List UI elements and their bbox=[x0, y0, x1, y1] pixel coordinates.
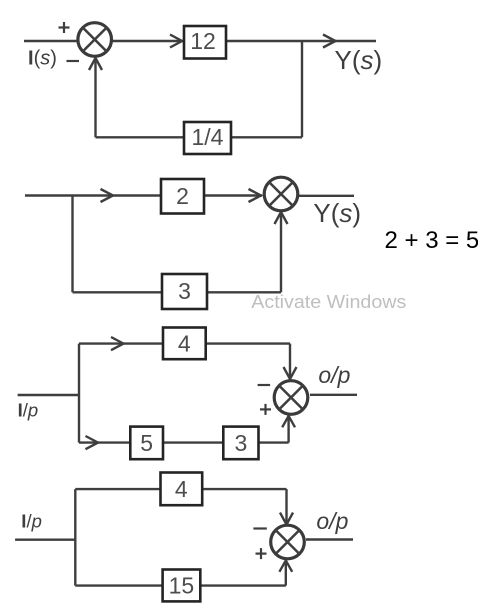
svg-text:I(s): I(s) bbox=[28, 48, 57, 70]
svg-text:Y(s): Y(s) bbox=[313, 198, 361, 228]
svg-text:Y(s): Y(s) bbox=[335, 45, 383, 75]
svg-text:I/p: I/p bbox=[21, 511, 42, 532]
svg-text:15: 15 bbox=[169, 573, 195, 599]
svg-text:12: 12 bbox=[190, 28, 216, 54]
svg-text:I/p: I/p bbox=[18, 399, 39, 420]
svg-text:Activate Windows: Activate Windows bbox=[251, 292, 406, 312]
svg-text:o/p: o/p bbox=[316, 508, 348, 534]
svg-text:1/4: 1/4 bbox=[192, 124, 224, 150]
svg-text:2 + 3 = 5: 2 + 3 = 5 bbox=[385, 227, 478, 254]
svg-text:4: 4 bbox=[178, 331, 191, 357]
svg-text:5: 5 bbox=[140, 430, 153, 456]
svg-text:3: 3 bbox=[178, 278, 191, 304]
svg-text:4: 4 bbox=[175, 476, 188, 502]
svg-text:2: 2 bbox=[176, 183, 189, 209]
svg-text:3: 3 bbox=[235, 430, 248, 456]
svg-text:o/p: o/p bbox=[318, 362, 350, 388]
